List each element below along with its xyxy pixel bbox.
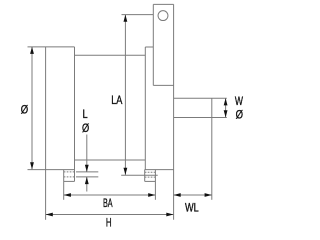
dim line: BA (64, 194, 156, 196)
arrow diam top (30, 47, 34, 54)
arrow BA left (64, 193, 71, 197)
arrow L upper (down) (85, 165, 89, 172)
arrow LA top (124, 15, 128, 22)
dim line: WL (174, 194, 212, 196)
arrow W bottom (224, 110, 228, 117)
LA top extension (122, 14, 154, 16)
dim line: H (46, 214, 174, 216)
left foot hidden hole (dashed) (64, 171, 75, 173)
shaft end + WL extension down (211, 98, 213, 200)
foot hole centerline (121, 174, 158, 176)
arrow W top (224, 98, 228, 105)
svg-text:Ø: Ø (236, 107, 243, 121)
top ledge to flange (145, 46, 153, 48)
shaft top edge + W extension (174, 97, 227, 99)
svg-text:WL: WL (185, 200, 199, 214)
mounting hole (158, 11, 168, 21)
shaft bottom edge + W extension (174, 117, 227, 119)
left foot (63, 170, 65, 200)
flange plate left edge (152, 4, 154, 85)
svg-text:BA: BA (103, 196, 113, 210)
dim line: shaft W (225, 98, 227, 117)
svg-text:L: L (83, 107, 88, 121)
arrow LA bottom (124, 168, 128, 175)
svg-text:Ø: Ø (21, 102, 28, 116)
arrow H left (46, 213, 53, 217)
flange shoulder (153, 84, 173, 86)
arrow L lower (up) (85, 177, 89, 184)
right foot hidden hole (dashed) (145, 171, 156, 173)
svg-text:LA: LA (111, 93, 122, 107)
motor main body top edge (75, 54, 146, 56)
arrow H right (166, 213, 173, 217)
svg-text:W: W (235, 94, 244, 108)
arrow diam bottom (30, 162, 34, 169)
bottom ledge flange area / right foot top (145, 169, 174, 171)
arrow BA right (148, 193, 155, 197)
arrow WL left (174, 193, 181, 197)
dim line: LA vertical (124, 15, 126, 175)
svg-text:Ø: Ø (82, 121, 89, 135)
L/diam extension lines (76, 171, 98, 173)
H left extension (body left edge continued) (45, 170, 47, 220)
dim line: body diameter (left) (31, 47, 33, 170)
motor rear housing (left rectangle) (45, 47, 47, 170)
flange plate top edge (153, 3, 173, 5)
arrow WL right (205, 193, 212, 197)
motor body right edge (144, 47, 146, 170)
right foot (144, 170, 146, 182)
L/diam lower leader (86, 177, 88, 192)
flange plate right edge + extension down (WL/H) (173, 4, 175, 219)
svg-text:H: H (106, 216, 112, 230)
L/diam upper leader (86, 135, 88, 172)
motor main body bottom edge (75, 159, 146, 161)
